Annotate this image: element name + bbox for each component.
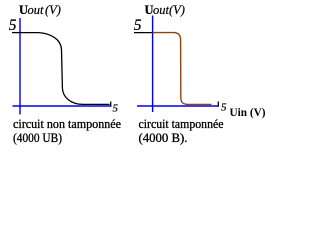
svg-text:Uin (V): Uin (V): [230, 105, 266, 119]
svg-text:circuit non tamponnée: circuit non tamponnée: [13, 117, 121, 131]
svg-text:5: 5: [113, 102, 119, 114]
svg-text:(4000 UB): (4000 UB): [13, 131, 62, 145]
right graph y-axis tick at 5: [134, 32, 153, 34]
right graph transfer curve (buffered sharp step): [153, 33, 212, 105]
svg-text:(4000 B).: (4000 B).: [139, 131, 188, 145]
svg-text:circuit tamponnée: circuit tamponnée: [139, 117, 224, 131]
svg-text:5: 5: [221, 102, 227, 114]
left graph y-axis tick at 5: [12, 32, 20, 34]
left graph transfer curve (non-buffered sigmoid): [20, 33, 110, 105]
svg-text:5: 5: [9, 17, 17, 34]
right graph x-axis tick at 5: [217, 102, 219, 107]
left graph x-axis: [13, 105, 112, 107]
left graph x-axis tick at 5: [110, 102, 112, 107]
svg-text:Uout(V): Uout(V): [145, 3, 185, 17]
right graph x-axis: [137, 105, 219, 107]
right graph y-axis: [152, 16, 154, 113]
svg-text:Uout(V): Uout(V): [19, 3, 61, 17]
svg-text:5: 5: [134, 17, 142, 34]
left graph y-axis: [19, 18, 21, 115]
